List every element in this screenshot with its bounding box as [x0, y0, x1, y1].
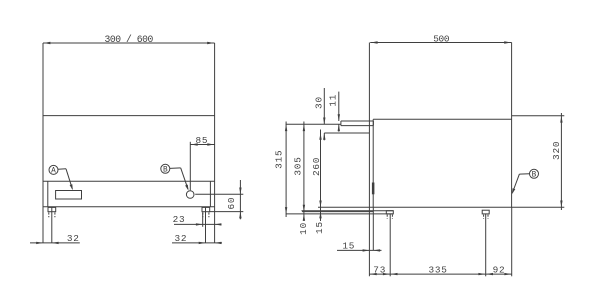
label B balloon — [161, 164, 170, 174]
dimension 30 — [314, 88, 326, 140]
dimension 10 — [298, 214, 309, 235]
grate level extension right — [512, 115, 565, 117]
dimension 15 left — [314, 212, 325, 234]
handle bar side — [372, 183, 375, 195]
dimension 500 top depth — [371, 34, 511, 45]
dimension 315 — [274, 122, 288, 218]
front panel inner extension — [372, 207, 374, 250]
leader A — [58, 169, 73, 191]
left leg inner line — [51, 207, 53, 243]
front foot plate side — [386, 211, 393, 214]
svg-text:300 / 600: 300 / 600 — [105, 34, 154, 45]
dimension 11 — [328, 92, 340, 132]
right leg inner line — [205, 207, 207, 243]
worktop front lip bottom — [324, 132, 369, 134]
svg-text:260: 260 — [311, 157, 322, 176]
svg-text:32: 32 — [67, 233, 80, 244]
svg-text:30: 30 — [314, 96, 325, 109]
dimension 15 bottom — [337, 240, 382, 251]
dimension 305 — [293, 122, 306, 222]
svg-text:11: 11 — [328, 94, 339, 107]
svg-text:15: 15 — [342, 240, 355, 251]
control band top edge — [43, 180, 215, 182]
side view body outline — [318, 43, 564, 277]
svg-text:335: 335 — [428, 264, 447, 275]
svg-text:B: B — [163, 167, 168, 175]
svg-text:60: 60 — [226, 197, 237, 210]
dimension 320 — [551, 113, 563, 210]
front foot hidden lines — [387, 215, 392, 219]
dimension 260 — [311, 130, 322, 222]
dimension 32 right leg — [172, 233, 222, 244]
worktop line front view — [43, 115, 215, 117]
front view body outline — [43, 43, 215, 243]
svg-text:320: 320 — [551, 141, 562, 160]
left leg hidden lines — [49, 212, 55, 217]
svg-text:85: 85 — [195, 135, 208, 146]
right leg hidden lines — [203, 212, 209, 217]
svg-text:32: 32 — [174, 233, 187, 244]
control panel rectangle A — [56, 191, 82, 200]
right leg plate — [202, 207, 210, 211]
label B balloon side — [530, 169, 539, 179]
svg-text:73: 73 — [373, 264, 386, 275]
control band bottom edge — [43, 206, 215, 208]
front leg line side — [389, 214, 391, 276]
left leg plate — [48, 207, 56, 211]
front inner edge line — [372, 119, 374, 207]
leader B side — [512, 174, 530, 195]
band inner right edge — [209, 181, 211, 207]
svg-text:315: 315 — [274, 150, 285, 169]
foot plate bottom line — [302, 210, 394, 212]
back foot hidden lines — [484, 215, 488, 219]
dimension 85 — [190, 135, 214, 190]
back leg line side — [485, 214, 487, 276]
svg-text:92: 92 — [493, 264, 506, 275]
bottom lip line — [302, 211, 373, 213]
dimension 60 — [195, 180, 243, 219]
dimension chain 73 335 92 — [369, 264, 511, 275]
band inner left edge — [47, 181, 49, 207]
svg-text:A: A — [51, 168, 56, 176]
svg-text:B: B — [532, 172, 537, 180]
grate top line — [373, 118, 511, 120]
svg-text:15: 15 — [314, 221, 325, 234]
back foot plate side — [482, 210, 489, 214]
leader B — [170, 168, 189, 191]
dimension 23 — [173, 212, 222, 227]
svg-text:305: 305 — [293, 156, 304, 175]
worktop line side — [286, 123, 341, 125]
svg-text:10: 10 — [298, 222, 309, 235]
svg-text:23: 23 — [173, 214, 186, 225]
griddle plate side — [341, 121, 374, 126]
svg-text:500: 500 — [433, 34, 450, 45]
label A balloon — [49, 165, 58, 175]
pilot circle B — [186, 191, 194, 199]
dimension 300 / 600 top width — [44, 34, 214, 45]
dimension 32 left leg — [30, 233, 80, 244]
